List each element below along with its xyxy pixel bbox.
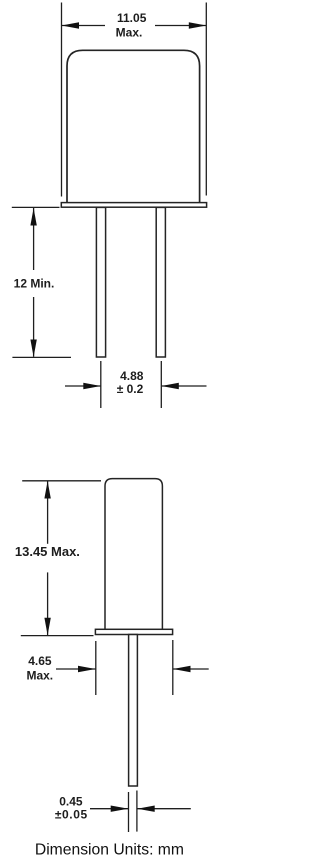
svg-text:Dimension Units: mm: Dimension Units: mm [35, 842, 184, 859]
svg-text:4.65: 4.65 [28, 654, 52, 668]
svg-text:Max.: Max. [116, 25, 143, 39]
svg-text:± 0.2: ± 0.2 [117, 382, 144, 396]
svg-text:4.88: 4.88 [120, 369, 144, 383]
svg-text:Max.: Max. [26, 669, 53, 683]
svg-text:11.05: 11.05 [117, 11, 147, 25]
svg-text:±0.05: ±0.05 [55, 808, 88, 822]
svg-text:13.45 Max.: 13.45 Max. [15, 544, 80, 559]
svg-text:0.45: 0.45 [59, 794, 83, 808]
svg-text:12 Min.: 12 Min. [14, 276, 55, 290]
